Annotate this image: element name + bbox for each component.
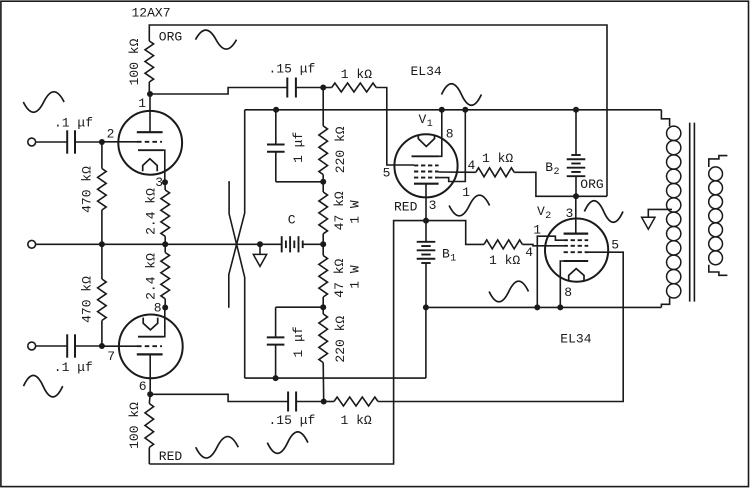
T1 cathode <box>138 150 165 182</box>
resistor R7 220 kOhm lower <box>319 307 328 401</box>
node B1 bottom junction <box>423 304 429 310</box>
label 1 kOhm V1 screen <box>482 151 513 166</box>
svg-text:3: 3 <box>429 198 437 213</box>
label .15 uf lower <box>269 413 316 428</box>
wire B1 to rail2 <box>425 307 427 378</box>
label pin 1 (V2) <box>533 223 541 238</box>
V1 grid g1 row <box>414 164 439 166</box>
resistor R14 1 kOhm (V2 screen) <box>484 240 522 249</box>
svg-text:100 kΩ: 100 kΩ <box>127 402 142 449</box>
label 100 kOhm lower <box>127 402 142 449</box>
node pin2 junction <box>99 139 105 145</box>
node 1uf lower junction <box>273 375 279 381</box>
svg-text:220 kΩ: 220 kΩ <box>333 316 348 363</box>
svg-text:1 W: 1 W <box>348 265 363 289</box>
sine wave S5 (right of V2 pin3) <box>584 201 623 223</box>
svg-text:RED: RED <box>159 449 183 464</box>
V1 cathode pin8 <box>412 110 442 157</box>
label .1 uf upper <box>54 116 93 131</box>
svg-text:1: 1 <box>427 119 433 130</box>
label pin 4 (V2) <box>525 245 533 260</box>
svg-text:6: 6 <box>139 379 147 394</box>
svg-text:470 kΩ: 470 kΩ <box>79 166 94 213</box>
wire rail2 <box>245 377 426 379</box>
wire pin1 to .15uf <box>150 88 287 95</box>
wire .15uf to node A2 <box>296 401 324 403</box>
label V2 <box>537 204 551 222</box>
wire cap to grid node <box>75 141 102 143</box>
label pin 5 (V2) <box>611 238 619 253</box>
svg-text:1: 1 <box>462 185 470 200</box>
node V1 pin1 junction <box>462 107 468 113</box>
V1 heater <box>418 135 434 147</box>
ground symbol G2 <box>642 217 655 229</box>
resistor R5 2.4 kOhm lower <box>161 244 170 307</box>
label EL34 bottom <box>560 332 591 347</box>
wire R11 to pin5 <box>376 88 414 166</box>
svg-text:470 kΩ: 470 kΩ <box>79 276 94 323</box>
V1 plate <box>414 184 439 221</box>
wire center line <box>36 243 282 245</box>
svg-text:1 kΩ: 1 kΩ <box>489 253 520 268</box>
T1 heater <box>143 159 158 171</box>
node pin8 junction <box>162 305 168 311</box>
node pin1 junction <box>147 91 153 97</box>
label pin 2 <box>107 127 115 142</box>
label pin 3 (V1) <box>429 198 437 213</box>
wire node D to 1uf <box>276 306 324 308</box>
svg-text:1 μf: 1 μf <box>291 132 306 163</box>
svg-text:2.4 kΩ: 2.4 kΩ <box>143 253 158 300</box>
svg-text:V: V <box>537 204 545 219</box>
svg-text:ORG: ORG <box>580 177 603 192</box>
label 1 W upper <box>348 200 363 224</box>
capacitor C6 1 uf lower <box>267 307 285 378</box>
resistor R4 2.4 kOhm upper <box>161 182 170 244</box>
resistor R1 100 kOhm (upper plate load) <box>145 41 154 94</box>
label pin 4 (V1) <box>468 158 476 173</box>
svg-text:2: 2 <box>545 211 551 222</box>
wire ORG loop top <box>149 25 607 196</box>
svg-text:3: 3 <box>155 175 163 190</box>
svg-text:1 μf: 1 μf <box>291 326 306 357</box>
resistor R12 1 kOhm (V2 grid) <box>324 397 378 406</box>
svg-text:2: 2 <box>554 167 560 178</box>
label B2 <box>545 160 559 178</box>
battery B1 <box>417 221 436 308</box>
label pin 8 (V2) <box>564 285 572 300</box>
label 2.4 kOhm lower <box>143 253 158 300</box>
V2 cathode pin8 <box>560 261 588 307</box>
terminal input 2 (center) <box>28 240 36 248</box>
svg-text:.15 μf: .15 μf <box>269 413 316 428</box>
svg-text:1: 1 <box>533 223 541 238</box>
resistor R3 470 kOhm lower <box>98 244 107 346</box>
T1 grid <box>137 141 162 143</box>
svg-text:.1 μf: .1 μf <box>54 360 93 375</box>
sine wave S1 (ORG top) <box>196 30 237 49</box>
label pin 7 <box>107 349 115 364</box>
svg-text:4: 4 <box>525 245 533 260</box>
resistor R11 1 kOhm (V1 grid) <box>323 83 376 92</box>
label pin 8 (V1) <box>446 127 454 142</box>
svg-text:12AX7: 12AX7 <box>132 5 171 20</box>
label 100 kOhm upper <box>127 38 142 85</box>
svg-text:1 kΩ: 1 kΩ <box>341 413 372 428</box>
wire node A to 220k <box>322 88 324 126</box>
svg-text:47 kΩ: 47 kΩ <box>332 191 347 230</box>
svg-text:47 kΩ: 47 kΩ <box>332 259 347 298</box>
label RED top <box>394 200 418 215</box>
label 2.4 kOhm upper <box>143 188 158 235</box>
V2 grid g1 row <box>564 251 589 253</box>
node B2 top junction <box>573 107 579 113</box>
node V1 pin8 junction <box>439 107 445 113</box>
svg-text:1 W: 1 W <box>348 200 363 224</box>
node D junction <box>320 304 326 310</box>
sine wave S8b <box>267 432 308 454</box>
label 470 kOhm upper <box>79 166 94 213</box>
svg-text:2: 2 <box>107 127 115 142</box>
label C <box>288 213 296 228</box>
sine wave S3 (EL34 top) <box>442 84 482 106</box>
svg-text:7: 7 <box>107 349 115 364</box>
node pin3 junction <box>162 179 168 185</box>
wire R12 to V2 g1 <box>378 252 623 401</box>
node V2 pin1 junction <box>534 304 540 310</box>
wire cap to grid node lower <box>75 345 102 347</box>
node 470k junction on center line <box>99 241 105 247</box>
capacitor C1 .1 uf <box>67 130 75 153</box>
label 12AX7 <box>132 5 171 20</box>
node B junction <box>320 179 326 185</box>
wire ORG node to right vertical <box>576 195 607 197</box>
label 1 uf lower <box>291 326 306 357</box>
V2 g3 lead to pin1 <box>537 236 563 307</box>
svg-text:.15 μf: .15 μf <box>269 62 316 77</box>
label pin 5 (V1) <box>383 166 391 181</box>
wire rail3 <box>426 306 662 308</box>
node 1uf top junction <box>273 107 279 113</box>
svg-text:5: 5 <box>611 238 619 253</box>
wire .15uf to node A <box>296 87 323 89</box>
ground symbol G1 <box>253 244 266 266</box>
wire node B to 1uf <box>276 181 323 183</box>
node ground stub junction <box>257 241 263 247</box>
V2 plate <box>564 196 589 233</box>
wire cross line A <box>229 181 245 378</box>
node pin7 junction <box>99 343 105 349</box>
wire grid pin2 <box>102 141 137 143</box>
label 1 W lower <box>348 265 363 289</box>
tube triode T2 envelope <box>119 315 183 379</box>
svg-text:V: V <box>419 112 427 127</box>
tube triode T1 envelope <box>118 111 182 175</box>
V2 g2 lead <box>522 244 563 245</box>
T2 heater <box>143 318 158 330</box>
node pin6 junction <box>147 391 153 397</box>
V1 grid g3 row <box>414 177 439 179</box>
svg-text:1 kΩ: 1 kΩ <box>341 67 372 82</box>
wire cross line B <box>229 110 245 308</box>
resistor R10 47 kOhm 1W lower <box>319 244 328 307</box>
label 470 kOhm lower <box>79 276 94 323</box>
label 220 kOhm lower <box>333 316 348 363</box>
label 47 kOhm lower <box>332 259 347 298</box>
capacitor C5 1 uf upper <box>267 110 285 182</box>
label pin 1 <box>138 96 146 111</box>
label 1 uf upper <box>291 132 306 163</box>
T2 plate <box>137 354 163 394</box>
wire grid pin7 <box>102 345 137 347</box>
T2 grid <box>137 345 162 347</box>
svg-text:EL34: EL34 <box>560 332 591 347</box>
label 1 kOhm lower <box>341 413 372 428</box>
resistor R13 1 kOhm (V1 screen) <box>476 168 514 177</box>
label pin 8 (T2) <box>154 301 162 316</box>
T1 plate <box>137 94 163 132</box>
svg-text:8: 8 <box>154 301 162 316</box>
wire input1 to cap <box>36 141 67 143</box>
label B1 <box>442 246 456 264</box>
label 1 kOhm upper <box>341 67 372 82</box>
label RED bottom <box>159 449 183 464</box>
sine wave S4 (below V1) <box>449 195 490 216</box>
sine wave S7 (input 3) <box>24 375 63 397</box>
battery C <box>282 236 303 252</box>
node A2 junction <box>321 399 327 405</box>
svg-text:5: 5 <box>383 166 391 181</box>
V2 heater <box>569 269 584 282</box>
svg-text:2.4 kΩ: 2.4 kΩ <box>143 188 158 235</box>
node A junction <box>320 85 326 91</box>
sine wave S6 (below V2 grid R) <box>489 281 528 302</box>
node ORG junction <box>573 193 579 199</box>
T2 cathode <box>138 308 165 337</box>
svg-text:.1 μf: .1 μf <box>54 116 93 131</box>
label pin 1 (V1) <box>462 185 470 200</box>
label .1 uf lower <box>54 360 93 375</box>
node C battery / 47k junction <box>320 241 326 247</box>
sine wave S2 (input 1) <box>23 92 64 112</box>
wire battery C to node <box>303 243 324 245</box>
transformer core <box>690 123 695 302</box>
capacitor C2 .1 uf <box>67 334 75 357</box>
label 1 kOhm V2 screen <box>489 253 520 268</box>
wire rail1 <box>245 109 662 111</box>
wire input3 to cap <box>36 345 67 347</box>
terminal input 3 <box>28 342 36 350</box>
V1 grid g2 row <box>414 171 439 173</box>
svg-text:1: 1 <box>138 96 146 111</box>
svg-text:RED: RED <box>394 200 418 215</box>
wire V1 plate to R14 <box>426 221 484 245</box>
capacitor C4 .15 uf lower <box>288 392 296 412</box>
wire R13 to ORG node <box>514 172 576 196</box>
resistor R9 47 kOhm 1W upper <box>319 182 328 245</box>
wire pin6 to .15uf <box>150 394 288 401</box>
battery B2 <box>567 110 586 197</box>
label V1 <box>419 112 433 130</box>
sine wave S8a <box>196 437 239 459</box>
svg-text:EL34: EL34 <box>411 64 442 79</box>
label EL34 top <box>411 64 442 79</box>
svg-text:100 kΩ: 100 kΩ <box>127 38 142 85</box>
label ORG right <box>580 177 603 192</box>
svg-text:8: 8 <box>564 285 572 300</box>
node V1 plate junction <box>423 218 429 224</box>
svg-text:C: C <box>288 213 296 228</box>
tube pentode V1 envelope <box>394 134 457 197</box>
resistor R2 470 kOhm upper <box>98 142 107 244</box>
label pin 3 (V2) <box>566 206 574 221</box>
svg-text:B: B <box>545 160 553 175</box>
svg-text:1 kΩ: 1 kΩ <box>482 151 513 166</box>
svg-text:ORG: ORG <box>159 30 182 45</box>
tube pentode V2 envelope <box>545 219 608 282</box>
node V2 pin8 junction <box>557 304 563 310</box>
V1 g3 lead to pin1 <box>439 110 466 182</box>
V2 grid g2 row <box>564 245 589 247</box>
svg-text:220 kΩ: 220 kΩ <box>333 126 348 173</box>
svg-text:B: B <box>442 246 450 261</box>
transformer center tap ground wire <box>648 209 672 217</box>
label 47 kOhm upper <box>332 191 347 230</box>
capacitor C3 .15 uf upper <box>287 78 296 98</box>
svg-text:1: 1 <box>450 254 456 265</box>
resistor R8 100 kOhm (lower plate load) <box>145 394 154 464</box>
label pin 6 <box>139 379 147 394</box>
terminal input 1 <box>28 138 36 146</box>
V2 grid g3 row <box>564 239 589 241</box>
label 220 kOhm upper <box>333 126 348 173</box>
node 2.4k junction on center line <box>162 241 168 247</box>
svg-text:8: 8 <box>446 127 454 142</box>
svg-text:4: 4 <box>468 158 476 173</box>
transformer T secondary winding <box>709 156 728 276</box>
label ORG top <box>159 30 182 45</box>
label .15 uf upper <box>269 62 316 77</box>
transformer T primary winding <box>661 110 680 308</box>
label pin 3 <box>155 175 163 190</box>
resistor R6 220 kOhm upper <box>319 126 328 182</box>
wire RED loop bottom <box>149 221 426 464</box>
V1 g2 lead <box>439 171 476 173</box>
